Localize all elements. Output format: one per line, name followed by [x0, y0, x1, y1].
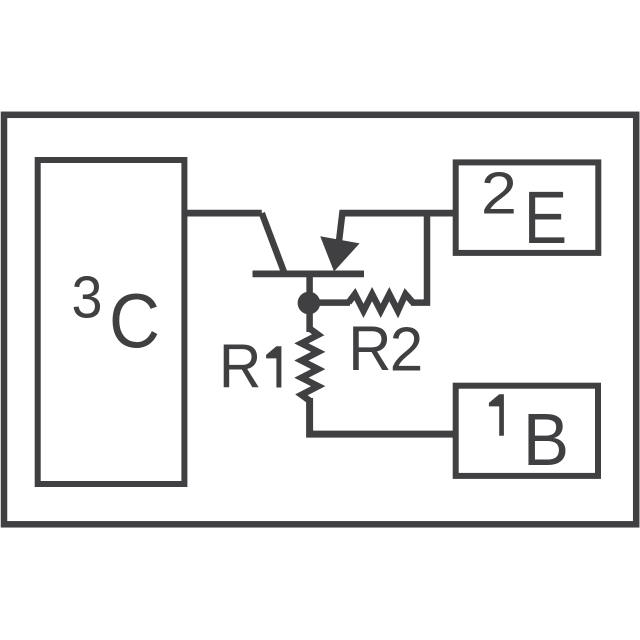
svg-text:2: 2 [390, 314, 423, 383]
transistor Q1 base bar [253, 270, 365, 277]
svg-text:3: 3 [72, 265, 103, 331]
svg-text:C: C [109, 278, 160, 365]
wire base: base bar down to node [306, 273, 313, 332]
pin box 1 B (base terminal) [456, 386, 598, 476]
wire emitter: transistor to E box [340, 210, 456, 217]
svg-text:B: B [523, 399, 569, 481]
svg-text:E: E [524, 176, 567, 259]
pin number 1 (custom narrow glyph) [489, 394, 504, 436]
wire node to R2 [310, 299, 350, 306]
svg-text:2: 2 [481, 161, 517, 227]
resistor R2 (horizontal zigzag) [349, 294, 413, 311]
junction node dot (base node) [298, 292, 321, 315]
transistor Q1 collector diagonal lead [262, 213, 284, 272]
wire collector: C box to transistor collector [184, 210, 262, 217]
wire R2 right end up to emitter wire [411, 213, 427, 303]
transistor Q1 emitter arrowhead (PNP) [320, 236, 359, 271]
resistor R1 (vertical zigzag) [301, 329, 318, 401]
pin box 2 E (emitter terminal) [456, 162, 599, 253]
pin box 3 C (collector terminal) [38, 160, 185, 484]
svg-text:R: R [348, 314, 391, 385]
wire R1 bottom to B box [310, 398, 456, 434]
svg-text:R: R [219, 331, 262, 401]
label R1 : digit 1 [266, 346, 281, 387]
outer package border [4, 115, 636, 525]
transistor Q1 emitter lead [339, 211, 343, 243]
